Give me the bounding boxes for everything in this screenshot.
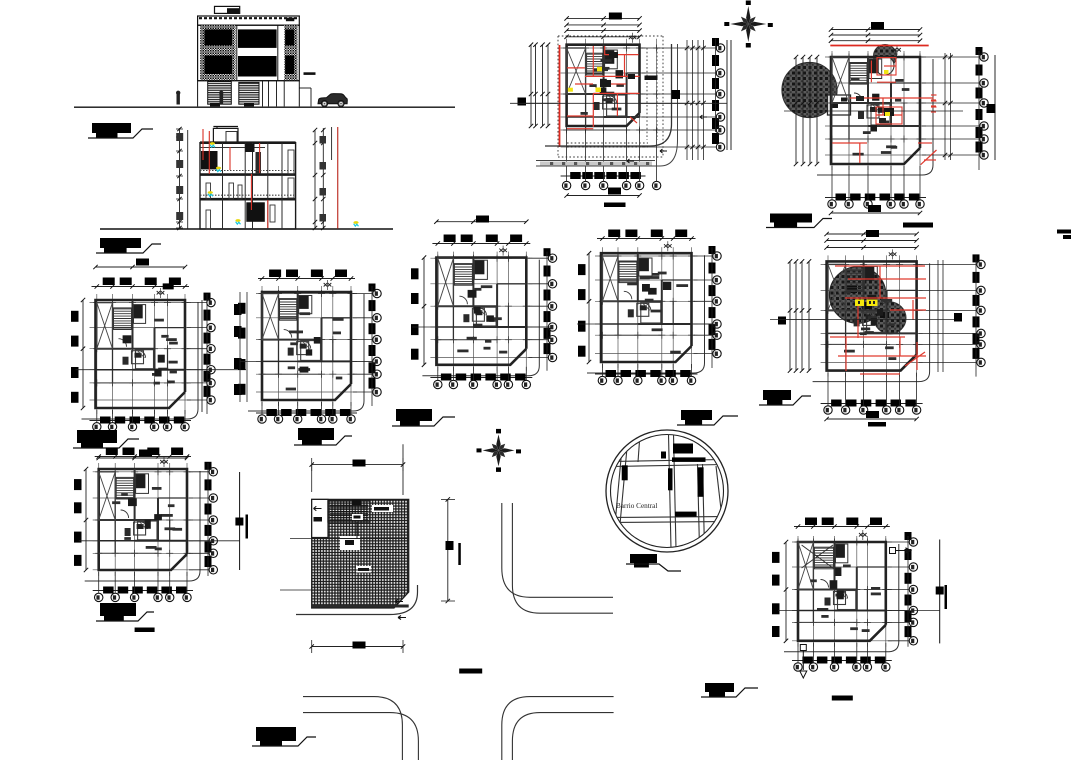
tree small 2 [874, 302, 906, 334]
title: plan P7 [681, 410, 712, 420]
title: plan P6 [396, 409, 432, 421]
north compass (top) [746, 6, 750, 24]
plan P7 [577, 230, 721, 385]
tree large 2 [829, 267, 886, 324]
title: plan P3 [763, 390, 791, 400]
plan P8 [74, 448, 248, 633]
title: street plan [256, 727, 296, 741]
plan P6 [411, 216, 557, 389]
street NW corner [296, 585, 418, 615]
plan P10 [772, 518, 947, 701]
street NE corner [502, 503, 613, 597]
tree small [874, 45, 897, 68]
building section [100, 127, 393, 231]
scale dash [459, 669, 482, 674]
title: plan P4 [77, 430, 117, 443]
edge mark top right [1057, 230, 1071, 234]
plan P5 [238, 270, 381, 424]
tree large [782, 62, 837, 117]
plan P2 site/ground [782, 22, 996, 228]
plan P4 [71, 259, 246, 431]
site map circle [606, 430, 728, 552]
title: section [100, 238, 141, 248]
svg-text:Barrio Central: Barrio Central [616, 502, 657, 510]
front elevation [74, 6, 455, 107]
plan P1 first floor [510, 13, 731, 208]
north compass (middle) [496, 434, 500, 450]
title: plan P2 [770, 214, 812, 223]
roof plan P9 [280, 444, 461, 653]
title: site map [630, 554, 657, 563]
title: elevation [92, 123, 131, 133]
title: plan P10 [705, 683, 734, 692]
title: plan P8 [100, 603, 136, 616]
street SW corner [303, 697, 402, 760]
title: plan P5 [298, 428, 334, 440]
street SE corner [502, 697, 614, 760]
plan P3 second floor [770, 230, 985, 427]
